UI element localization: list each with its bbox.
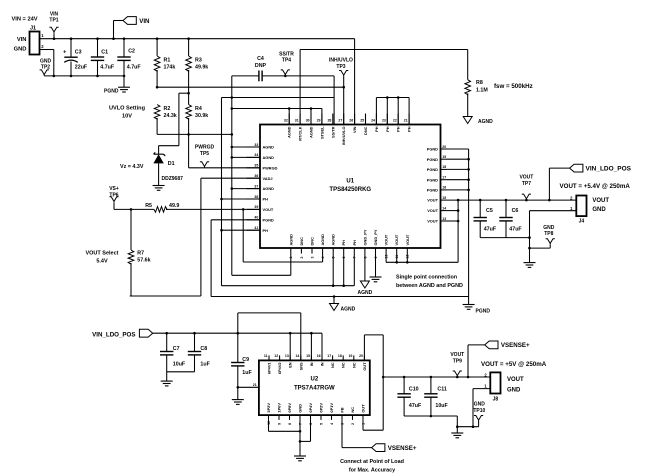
ground (LDO out) xyxy=(451,432,463,434)
svg-text:57.6k: 57.6k xyxy=(137,257,150,263)
svg-text:TP4: TP4 xyxy=(282,58,291,64)
svg-text:30: 30 xyxy=(306,119,310,123)
svg-text:12: 12 xyxy=(274,354,278,358)
connector J1 xyxy=(30,32,40,55)
svg-text:21: 21 xyxy=(404,119,408,123)
svg-text:INH/UVLO: INH/UVLO xyxy=(329,58,353,64)
svg-text:R5: R5 xyxy=(145,203,152,209)
svg-text:15: 15 xyxy=(306,354,310,358)
wire AGND line pins 32/30/29 xyxy=(232,108,322,110)
svg-text:49.9: 49.9 xyxy=(169,203,179,209)
svg-text:PGND: PGND xyxy=(476,309,491,315)
svg-text:VOUT = +5V @ 250mA: VOUT = +5V @ 250mA xyxy=(481,361,547,368)
svg-text:33: 33 xyxy=(254,143,258,147)
svg-text:VIN = 24V: VIN = 24V xyxy=(12,17,38,23)
wire PH pins 38/41 bus xyxy=(222,198,261,200)
svg-text:26: 26 xyxy=(349,119,353,123)
svg-text:AGND: AGND xyxy=(309,126,314,138)
svg-text:for Max. Accuracy: for Max. Accuracy xyxy=(349,468,395,474)
IC U2 TPS7A47RGW LDO xyxy=(259,360,370,415)
svg-text:22uF: 22uF xyxy=(75,64,88,70)
capacitor C10 47uF xyxy=(403,377,405,394)
svg-text:31: 31 xyxy=(295,119,299,123)
wire IN pins 15/16 xyxy=(310,333,312,360)
svg-text:2: 2 xyxy=(300,257,304,259)
svg-text:PH: PH xyxy=(407,126,412,132)
net flag VIN_LDO_POS (top) xyxy=(548,168,550,200)
svg-text:AGND: AGND xyxy=(288,234,293,246)
svg-text:32: 32 xyxy=(284,119,288,123)
svg-text:RT/CLK: RT/CLK xyxy=(298,126,303,140)
svg-text:VSENSE+: VSENSE+ xyxy=(501,342,530,349)
wire FB pin 3 to VSENSE+ xyxy=(341,420,343,448)
capacitor C2 (4.7uF) xyxy=(123,39,125,57)
wire C7/C8 ground xyxy=(167,371,195,373)
svg-text:VOUT: VOUT xyxy=(427,219,438,224)
svg-text:16: 16 xyxy=(442,186,446,190)
svg-text:20: 20 xyxy=(442,145,446,149)
svg-text:TP6: TP6 xyxy=(109,192,118,198)
svg-text:AGND: AGND xyxy=(263,186,275,191)
svg-text:GND_PY: GND_PY xyxy=(373,229,378,245)
svg-text:VS+: VS+ xyxy=(109,186,119,192)
svg-text:between AGND and PGND: between AGND and PGND xyxy=(396,283,463,289)
wire R7 bottom xyxy=(130,295,201,297)
svg-text:25: 25 xyxy=(360,119,364,123)
wire input ground rail xyxy=(44,75,124,77)
wire VIN rail xyxy=(40,38,355,40)
resistor R2 24.3k xyxy=(154,105,160,120)
svg-text:30.9k: 30.9k xyxy=(195,113,208,119)
wire OUT loop pins 20/1 xyxy=(363,335,365,361)
svg-text:C6: C6 xyxy=(512,208,519,214)
svg-text:UVLO Setting: UVLO Setting xyxy=(109,106,146,112)
svg-text:21: 21 xyxy=(253,383,257,387)
svg-text:AGND: AGND xyxy=(478,119,493,125)
svg-text:C1: C1 xyxy=(101,49,108,55)
svg-text:C8: C8 xyxy=(200,346,207,352)
ground (C7/C8) xyxy=(161,380,173,382)
svg-text:37: 37 xyxy=(254,184,258,188)
wire C5/C6 ground rail xyxy=(480,237,529,239)
svg-text:GND: GND xyxy=(507,388,521,394)
svg-text:OUT: OUT xyxy=(362,362,367,371)
svg-text:TP2: TP2 xyxy=(41,64,50,70)
svg-text:24: 24 xyxy=(371,119,375,123)
svg-text:VOUT: VOUT xyxy=(519,175,533,181)
wire U2 gnd pins 10/7/6 xyxy=(268,420,270,431)
ground PGND (input) xyxy=(118,86,130,88)
ground AGND (R8) xyxy=(463,117,472,124)
svg-text:1.1M: 1.1M xyxy=(476,88,488,94)
svg-text:8: 8 xyxy=(288,423,292,425)
svg-text:0P8V: 0P8V xyxy=(287,403,292,413)
svg-text:TP5: TP5 xyxy=(200,151,209,157)
svg-text:PH: PH xyxy=(341,240,346,246)
svg-text:PGND: PGND xyxy=(427,177,438,182)
svg-text:TP9: TP9 xyxy=(453,358,462,364)
wire to pin 4 xyxy=(243,261,322,263)
svg-text:PGND: PGND xyxy=(427,167,438,172)
svg-text:VOUT: VOUT xyxy=(450,352,464,358)
svg-text:R1: R1 xyxy=(164,58,171,64)
svg-text:DNC: DNC xyxy=(363,126,368,135)
svg-text:0P4V: 0P4V xyxy=(308,403,313,413)
svg-text:R2: R2 xyxy=(164,106,171,112)
resistor R5 49.9 xyxy=(154,207,167,213)
capacitor C11 10uF xyxy=(430,377,432,394)
connector J4 xyxy=(576,196,586,217)
ground (J4/TP8) xyxy=(524,262,536,264)
svg-text:PGND: PGND xyxy=(263,217,274,222)
capacitor C5 47uF xyxy=(479,200,481,217)
svg-text:38: 38 xyxy=(254,195,258,199)
svg-text:NC: NC xyxy=(330,362,335,368)
svg-text:TPS84250RKG: TPS84250RKG xyxy=(329,187,371,193)
svg-text:AGND: AGND xyxy=(331,234,336,246)
svg-text:PGND: PGND xyxy=(427,147,438,152)
svg-text:0P2V: 0P2V xyxy=(319,403,324,413)
svg-text:VIN: VIN xyxy=(139,18,150,25)
IC U1 TPS84250RKG power module xyxy=(260,125,441,249)
svg-text:9: 9 xyxy=(277,423,281,425)
svg-text:PWRGD: PWRGD xyxy=(195,145,215,151)
svg-text:34: 34 xyxy=(254,153,258,157)
svg-text:27: 27 xyxy=(338,119,342,123)
U1 bottom pin stubs, numbers, names xyxy=(290,248,292,254)
svg-text:U1: U1 xyxy=(346,179,354,185)
svg-text:SNS: SNS xyxy=(298,362,303,370)
wire AGND pin 8 xyxy=(364,254,366,282)
svg-text:VOUT: VOUT xyxy=(394,234,399,245)
svg-text:SS/TR: SS/TR xyxy=(330,126,335,138)
wire C10/C11 ground rail xyxy=(404,415,457,417)
svg-text:C4: C4 xyxy=(257,56,264,62)
svg-text:39: 39 xyxy=(254,205,258,209)
svg-text:C7: C7 xyxy=(173,346,180,352)
svg-text:AGND: AGND xyxy=(341,307,356,313)
wire PH bus pins 21-24 xyxy=(376,97,409,99)
ground (D1) xyxy=(153,185,165,187)
U2 top pin stubs, numbers, names xyxy=(268,355,270,360)
wire R2/R4 bottom to AGND bus xyxy=(157,133,232,135)
U1 left pin stubs, numbers, names xyxy=(247,146,261,148)
svg-text:NC: NC xyxy=(341,362,346,368)
svg-text:13: 13 xyxy=(442,217,446,221)
wire VADJ pin36 loop xyxy=(201,177,260,179)
svg-text:AGND: AGND xyxy=(263,155,275,160)
svg-text:NC: NC xyxy=(351,362,356,368)
U2 bottom pin stubs, numbers, names xyxy=(268,415,270,420)
svg-text:TP3: TP3 xyxy=(336,64,345,70)
svg-text:5: 5 xyxy=(319,423,323,425)
wire SSTR left drop xyxy=(231,76,233,275)
svg-text:10uF: 10uF xyxy=(435,403,448,409)
svg-text:AGND: AGND xyxy=(263,145,275,150)
svg-text:15: 15 xyxy=(442,196,446,200)
wire INH/UVLO to pin 27 xyxy=(343,77,345,125)
svg-text:PH: PH xyxy=(263,228,269,233)
svg-text:13: 13 xyxy=(285,354,289,358)
svg-text:5.4V: 5.4V xyxy=(96,259,108,265)
svg-text:PWRGD: PWRGD xyxy=(263,165,278,170)
svg-text:GND: GND xyxy=(592,207,606,213)
svg-text:47uF: 47uF xyxy=(484,227,497,233)
svg-text:6P4V2: 6P4V2 xyxy=(277,362,282,375)
svg-text:DDZ9687: DDZ9687 xyxy=(162,176,184,182)
svg-text:35: 35 xyxy=(254,164,258,168)
svg-text:29: 29 xyxy=(317,119,321,123)
net flag VSENSE+ (FB) xyxy=(372,444,385,452)
svg-text:C9: C9 xyxy=(242,357,249,363)
resistor R4 30.9k xyxy=(186,105,192,120)
svg-text:PGND: PGND xyxy=(104,88,119,94)
svg-text:40: 40 xyxy=(254,216,258,220)
wire LDO VOUT rail xyxy=(383,376,490,378)
svg-text:PH: PH xyxy=(385,126,390,132)
svg-text:VIN_LDO_POS: VIN_LDO_POS xyxy=(586,166,632,173)
wire D1 tap from R3/R4 junction xyxy=(179,92,189,94)
svg-text:VOUT: VOUT xyxy=(427,198,438,203)
wire VOUT pins 13/14 tie xyxy=(447,210,459,212)
svg-text:C10: C10 xyxy=(409,387,419,393)
svg-text:R3: R3 xyxy=(195,58,202,64)
svg-text:20: 20 xyxy=(359,354,363,358)
wire SSTR line to pin 28 xyxy=(222,97,335,99)
svg-text:TP7: TP7 xyxy=(522,181,531,187)
wire PGND pin40 loop xyxy=(211,219,260,221)
svg-text:14: 14 xyxy=(295,354,299,358)
wire LDO input rail xyxy=(153,332,322,334)
net flag VIN xyxy=(113,21,115,39)
svg-text:C11: C11 xyxy=(437,387,446,393)
svg-text:VOUT: VOUT xyxy=(384,234,389,245)
svg-text:C5: C5 xyxy=(486,208,493,214)
svg-text:17: 17 xyxy=(327,354,331,358)
svg-text:IN: IN xyxy=(320,362,325,366)
U1 right pin stubs, numbers, names xyxy=(441,148,447,150)
svg-text:R8: R8 xyxy=(476,80,483,86)
svg-text:C2: C2 xyxy=(128,48,135,54)
wire J4 GND xyxy=(530,210,577,212)
svg-text:DNC: DNC xyxy=(310,237,315,246)
svg-text:OUT: OUT xyxy=(361,404,366,413)
svg-text:AGND: AGND xyxy=(320,234,325,246)
svg-text:22: 22 xyxy=(393,119,397,123)
svg-text:INH/UVLO: INH/UVLO xyxy=(341,127,346,146)
svg-text:VADJ: VADJ xyxy=(263,176,273,181)
svg-text:PH: PH xyxy=(396,126,401,132)
capacitor C6 47uF xyxy=(505,200,507,217)
svg-text:14: 14 xyxy=(442,206,446,210)
svg-text:VOUT: VOUT xyxy=(507,377,524,383)
svg-text:VOUT: VOUT xyxy=(405,234,410,245)
svg-text:TP8: TP8 xyxy=(544,231,553,237)
svg-text:0P1V: 0P1V xyxy=(329,403,334,413)
svg-text:16: 16 xyxy=(317,354,321,358)
wire UVLO node rail xyxy=(157,86,344,88)
pin 25 stub xyxy=(365,114,367,125)
wire VOUT pins 10/11/12 tie xyxy=(386,261,458,263)
svg-text:GND: GND xyxy=(14,47,27,53)
wire J8 GND xyxy=(473,388,490,390)
ground PGND (right) xyxy=(468,297,470,305)
svg-text:17: 17 xyxy=(442,176,446,180)
svg-text:STSEL: STSEL xyxy=(319,126,324,139)
wire PGND pins 16-20 bus xyxy=(447,148,469,150)
svg-text:DNP: DNP xyxy=(255,63,267,69)
svg-text:GND: GND xyxy=(474,402,486,408)
svg-text:PH: PH xyxy=(352,240,357,246)
svg-text:4.7uF: 4.7uF xyxy=(127,64,142,70)
svg-text:EN: EN xyxy=(288,362,293,368)
svg-text:174k: 174k xyxy=(164,64,176,70)
svg-text:PH: PH xyxy=(374,126,379,132)
wire single point AGND/PGND bus xyxy=(211,296,469,298)
capacitor C1 (4.7uF) xyxy=(97,39,99,57)
svg-text:+: + xyxy=(63,49,66,55)
svg-text:11: 11 xyxy=(264,354,268,358)
svg-text:AGND: AGND xyxy=(358,290,373,296)
wire PWRGD pin 35 xyxy=(188,134,190,167)
svg-text:19: 19 xyxy=(442,155,446,159)
svg-text:Vz = 4.3V: Vz = 4.3V xyxy=(120,164,144,170)
capacitor C7 10uF xyxy=(166,333,168,351)
ground (C9/U2 GND) xyxy=(232,399,244,401)
resistor R1 174k xyxy=(156,39,158,56)
wire AGND bus bottom corner to pin 1 xyxy=(232,274,291,276)
svg-text:3: 3 xyxy=(310,257,314,259)
svg-text:NC: NC xyxy=(350,407,355,413)
svg-text:TP1: TP1 xyxy=(49,18,58,24)
svg-text:47uF: 47uF xyxy=(509,227,522,233)
resistor R8 1.1M xyxy=(465,80,471,95)
resistor R7 57.6k xyxy=(130,209,132,250)
svg-text:C3: C3 xyxy=(75,49,82,55)
wire PH bottom line to pins 5/6/7 xyxy=(222,285,355,287)
svg-text:VIN_LDO_POS: VIN_LDO_POS xyxy=(92,332,135,339)
svg-text:36: 36 xyxy=(254,174,258,178)
wire AGND bus (pins 33/34/37 tie) xyxy=(232,146,260,148)
ground AGND (pin 8) xyxy=(360,281,369,288)
svg-text:Connect at Point of Load: Connect at Point of Load xyxy=(340,459,404,465)
svg-text:VOUT: VOUT xyxy=(263,207,274,212)
svg-text:4.7uF: 4.7uF xyxy=(100,64,115,70)
wire J1 pin2 to ground rail xyxy=(40,49,54,51)
svg-text:VOUT: VOUT xyxy=(427,208,438,213)
svg-text:VOUT: VOUT xyxy=(592,198,609,204)
svg-text:J4: J4 xyxy=(579,219,585,225)
svg-text:3P2V: 3P2V xyxy=(266,403,271,413)
svg-text:R7: R7 xyxy=(137,251,144,257)
svg-text:FB: FB xyxy=(340,407,345,412)
svg-text:24.3k: 24.3k xyxy=(164,113,177,119)
connector J8 xyxy=(490,372,500,393)
svg-text:Single point connection: Single point connection xyxy=(396,275,457,281)
svg-text:PGND: PGND xyxy=(427,188,438,193)
svg-text:47uF: 47uF xyxy=(409,403,422,409)
svg-text:VOUT = +5.4V @ 250mA: VOUT = +5.4V @ 250mA xyxy=(560,183,631,190)
svg-text:VIN: VIN xyxy=(17,37,27,43)
ground (U2) xyxy=(294,455,306,457)
svg-text:2: 2 xyxy=(351,423,355,425)
svg-text:1uF: 1uF xyxy=(242,370,252,376)
svg-text:DNC: DNC xyxy=(299,237,304,246)
svg-text:19: 19 xyxy=(348,354,352,358)
svg-text:J1: J1 xyxy=(30,26,36,32)
svg-text:18: 18 xyxy=(338,354,342,358)
svg-text:VSENSE+: VSENSE+ xyxy=(388,445,417,452)
svg-text:49.9k: 49.9k xyxy=(195,64,208,70)
wire RT/CLK net xyxy=(299,50,301,125)
capacitor C8 1uF xyxy=(194,333,196,351)
capacitor C3 (22uF polarized) xyxy=(70,39,72,57)
svg-text:GND_PY: GND_PY xyxy=(362,229,367,245)
svg-text:TPS7A47RGW: TPS7A47RGW xyxy=(294,386,335,392)
svg-text:41: 41 xyxy=(254,226,258,230)
wire U2 GND pin 21 xyxy=(238,386,259,388)
net flag VSENSE+ (output) xyxy=(467,345,469,377)
svg-text:D1: D1 xyxy=(168,161,175,167)
svg-text:4: 4 xyxy=(330,423,334,425)
wire R5 line to pin 39 xyxy=(114,208,154,210)
ground AGND (single point) xyxy=(333,297,335,304)
svg-text:PH: PH xyxy=(263,197,269,202)
svg-text:PGND: PGND xyxy=(427,157,438,162)
svg-text:10V: 10V xyxy=(122,114,132,120)
svg-text:10uF: 10uF xyxy=(173,362,186,368)
svg-text:28: 28 xyxy=(327,119,331,123)
svg-text:AGND: AGND xyxy=(287,126,292,138)
svg-text:6P4V1: 6P4V1 xyxy=(267,362,272,375)
svg-text:18: 18 xyxy=(442,165,446,169)
wire SNS loop over U2 xyxy=(237,313,239,333)
svg-text:fsw = 500kHz: fsw = 500kHz xyxy=(494,83,533,90)
resistor R3 49.9k xyxy=(188,39,190,56)
U1 top pin stubs, numbers, names xyxy=(288,114,290,125)
wire VOUT sense bus (pin 39 tap) xyxy=(242,209,244,262)
svg-text:1P6V: 1P6V xyxy=(277,403,282,413)
svg-text:VIN: VIN xyxy=(352,126,357,133)
svg-text:VOUT Select: VOUT Select xyxy=(85,250,118,256)
svg-text:GND: GND xyxy=(543,225,555,231)
svg-text:TP10: TP10 xyxy=(473,408,485,414)
ground (pin 9 PGND) xyxy=(375,254,377,278)
svg-text:IN: IN xyxy=(309,362,314,366)
svg-text:J8: J8 xyxy=(493,397,499,403)
svg-text:23: 23 xyxy=(382,119,386,123)
svg-text:R4: R4 xyxy=(195,106,202,112)
svg-text:U2: U2 xyxy=(311,377,319,383)
zener diode D1 DDZ9687 xyxy=(158,146,160,155)
capacitor C9 1uF xyxy=(237,333,239,362)
svg-text:1uF: 1uF xyxy=(200,362,210,368)
wire EN pin 13 xyxy=(289,333,291,360)
wire VOUT rail xyxy=(447,199,577,201)
svg-text:GND: GND xyxy=(298,404,303,413)
wire VIN to pin 26 xyxy=(354,39,356,125)
